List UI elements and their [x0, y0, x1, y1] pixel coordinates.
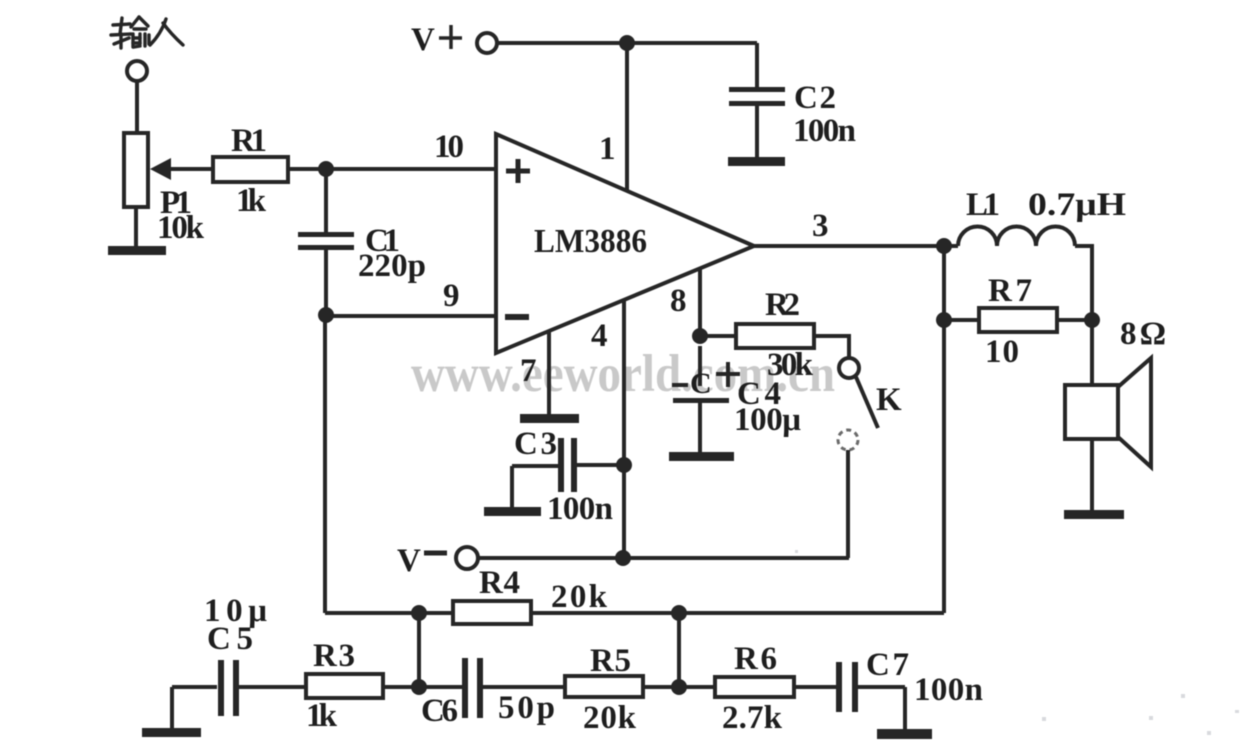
svg-text:C5: C5	[207, 621, 253, 657]
svg-text:100n: 100n	[793, 113, 856, 149]
svg-text:V: V	[411, 22, 435, 58]
svg-text:4: 4	[591, 318, 608, 354]
svg-text:V: V	[397, 543, 421, 579]
svg-text:10: 10	[434, 129, 464, 165]
svg-text:L1: L1	[966, 187, 1000, 223]
svg-text:20k: 20k	[583, 700, 637, 736]
svg-text:2.7k: 2.7k	[722, 700, 783, 736]
svg-text:0.7μH: 0.7μH	[1028, 187, 1126, 223]
svg-text:R2: R2	[765, 287, 800, 323]
svg-text:C3: C3	[514, 426, 557, 462]
svg-text:R7: R7	[988, 273, 1032, 309]
svg-text:R6: R6	[734, 641, 777, 677]
svg-text:50p: 50p	[498, 690, 555, 726]
svg-text:8: 8	[670, 283, 687, 319]
svg-text:C: C	[690, 367, 712, 400]
svg-text:C7: C7	[866, 647, 909, 683]
svg-text:R4: R4	[479, 565, 520, 601]
svg-text:K: K	[876, 382, 902, 418]
svg-text:LM3886: LM3886	[534, 223, 647, 260]
svg-text:7: 7	[520, 353, 537, 389]
svg-text:100μ: 100μ	[734, 402, 801, 438]
svg-text:220p: 220p	[358, 248, 426, 284]
svg-text:100n: 100n	[914, 672, 983, 708]
svg-text:1k: 1k	[306, 698, 338, 734]
svg-text:9: 9	[443, 278, 460, 314]
svg-text:R3: R3	[313, 638, 355, 674]
svg-text:10k: 10k	[157, 210, 205, 246]
svg-text:10: 10	[985, 334, 1019, 370]
svg-text:100n: 100n	[547, 491, 613, 527]
svg-text:3: 3	[812, 208, 829, 244]
svg-text:1k: 1k	[236, 183, 267, 219]
svg-text:20k: 20k	[551, 579, 608, 615]
svg-text:C2: C2	[794, 80, 836, 116]
svg-text:R5: R5	[590, 643, 631, 679]
svg-text:C6: C6	[421, 693, 458, 729]
svg-text:1: 1	[599, 131, 616, 167]
svg-text:R1: R1	[231, 123, 267, 159]
svg-text:8Ω: 8Ω	[1120, 316, 1166, 352]
